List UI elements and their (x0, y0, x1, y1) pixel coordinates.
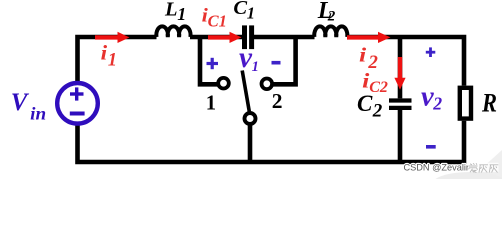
svg-text:in: in (30, 104, 46, 124)
svg-text:R: R (481, 87, 497, 117)
svg-text:v: v (239, 41, 253, 74)
svg-text:2: 2 (272, 89, 283, 113)
svg-text:2: 2 (372, 100, 383, 121)
svg-text:1: 1 (252, 59, 259, 75)
svg-text:1: 1 (206, 91, 216, 115)
svg-text:1: 1 (177, 4, 186, 24)
svg-text:1: 1 (108, 51, 117, 71)
svg-text:1: 1 (247, 3, 255, 22)
svg-text:2: 2 (432, 93, 442, 113)
svg-text:2: 2 (327, 8, 336, 24)
svg-text:i: i (359, 45, 367, 67)
svg-text:C2: C2 (369, 79, 388, 96)
svg-text:L: L (164, 0, 178, 21)
svg-text:C: C (233, 0, 247, 19)
svg-text:v: v (421, 81, 434, 112)
svg-text:C1: C1 (208, 11, 227, 30)
svg-text:V: V (11, 89, 30, 116)
svg-text:i: i (101, 41, 108, 65)
svg-text:CSDN @Zevalir: CSDN @Zevalir (404, 162, 469, 172)
